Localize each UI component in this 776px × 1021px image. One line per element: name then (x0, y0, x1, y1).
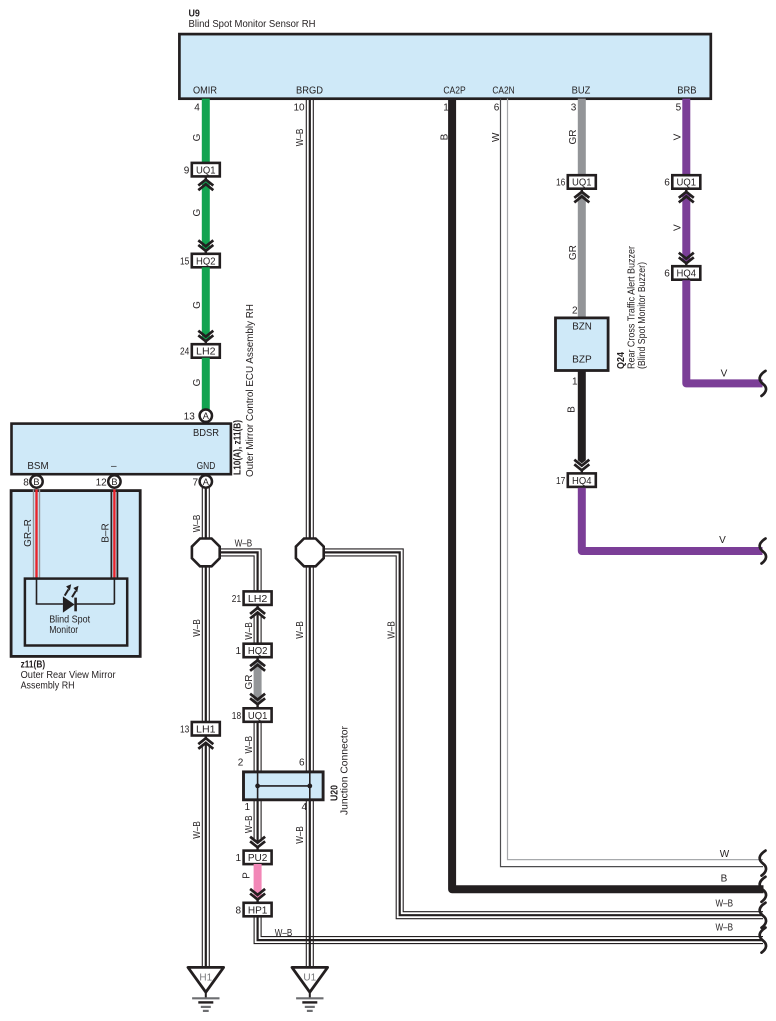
svg-text:24: 24 (180, 347, 190, 358)
svg-text:W–B: W–B (295, 621, 306, 639)
wire continuation squiggle W (760, 851, 766, 876)
pin 13 (A) of ECU (184, 410, 212, 423)
svg-text:6: 6 (494, 103, 500, 114)
svg-text:2: 2 (238, 758, 244, 769)
svg-text:B: B (721, 873, 728, 884)
label z11(B) (21, 660, 45, 671)
node junction on GND wire (192, 539, 220, 567)
wire G segment UQ1 to HQ2 (202, 181, 210, 252)
LED diode (Blind Spot Monitor indicator) (63, 596, 76, 612)
label W-B (716, 923, 734, 934)
node junction on BRGD wire (296, 539, 324, 567)
pin 1 (CA2P) (443, 103, 449, 114)
svg-text:G: G (192, 133, 203, 141)
wire GR HQ2 to UQ1 (254, 661, 262, 705)
pin 5 (BRB) (676, 103, 682, 114)
svg-text:HQ2: HQ2 (248, 646, 268, 657)
svg-text:LH1: LH1 (196, 724, 216, 735)
svg-text:HQ4: HQ4 (572, 476, 592, 487)
svg-text:4: 4 (301, 802, 307, 813)
svg-text:W–B: W–B (244, 736, 255, 754)
pin 6 of U20 (299, 758, 305, 769)
component U20 Junction Connector (244, 772, 324, 800)
label Rear Cross Traffic Alert Buzzer (627, 245, 638, 369)
svg-text:U9: U9 (189, 8, 201, 19)
svg-text:8: 8 (23, 477, 29, 488)
svg-text:BSM: BSM (27, 461, 48, 472)
svg-text:UQ1: UQ1 (248, 711, 268, 722)
svg-text:6: 6 (664, 178, 670, 189)
chevron into PU2 (250, 837, 265, 851)
svg-text:W: W (491, 132, 502, 142)
svg-text:HQ4: HQ4 (677, 269, 697, 280)
component Q24 Rear Cross Traffic Alert Buzzer (556, 318, 609, 371)
svg-text:B: B (111, 477, 117, 487)
svg-text:Blind Spot: Blind Spot (49, 615, 90, 626)
wire B CA2P down and right to edge (452, 99, 763, 890)
chevron into LH2 (198, 331, 213, 345)
chevron into UQ1 (250, 694, 265, 709)
connector 1 PU2 (236, 851, 272, 865)
wire V UQ1 to HQ4 (682, 193, 690, 264)
chevron into HP1 (250, 889, 265, 903)
svg-text:B: B (567, 406, 578, 413)
label G (192, 208, 203, 216)
svg-text:W–B: W–B (295, 826, 306, 844)
label (Blind Spot Monitor Buzzer) (637, 262, 648, 369)
label B-R (101, 523, 112, 542)
label W-B (295, 128, 306, 146)
svg-text:L10(A), z11(B): L10(A), z11(B) (233, 420, 244, 475)
chevron into LH2 (250, 605, 265, 619)
svg-text:15: 15 (180, 256, 190, 267)
label W-B (235, 538, 253, 549)
wire continuation squiggle V (760, 539, 766, 564)
chevron into LH1 (198, 736, 213, 749)
ground H1 (188, 967, 224, 1011)
svg-text:12: 12 (96, 477, 108, 488)
wire P PU2 to HP1 (254, 864, 262, 900)
svg-text:GR–R: GR–R (23, 519, 34, 547)
svg-text:UQ1: UQ1 (677, 178, 697, 189)
svg-text:Outer Rear View Mirror: Outer Rear View Mirror (21, 670, 117, 681)
label W-B (716, 899, 734, 910)
wire continuation squiggle W-B (760, 903, 766, 928)
svg-text:HQ2: HQ2 (196, 256, 216, 267)
svg-text:16: 16 (556, 178, 566, 189)
svg-text:7: 7 (193, 477, 199, 488)
svg-text:W–B: W–B (716, 899, 734, 910)
chevron into HQ4 (679, 253, 694, 267)
svg-text:B–R: B–R (101, 523, 112, 542)
label W-B (244, 815, 255, 833)
svg-text:UQ1: UQ1 (572, 178, 592, 189)
label B (567, 406, 578, 413)
label W-B (386, 621, 397, 639)
wire W-B UQ1 to U20 pin2 (254, 722, 261, 772)
wire W-B junction to LH1 (202, 565, 209, 722)
pin 6 (CA2N) (494, 103, 500, 114)
svg-text:18: 18 (232, 711, 242, 722)
label GR (568, 130, 579, 145)
wire V HQ4 down and right to edge (582, 488, 763, 551)
svg-text:OMIR: OMIR (193, 85, 217, 96)
connector 1 HQ2 (236, 644, 272, 658)
svg-text:V: V (721, 369, 728, 380)
label G (192, 133, 203, 141)
svg-text:LH2: LH2 (196, 347, 216, 358)
svg-text:21: 21 (232, 594, 242, 605)
svg-text:4: 4 (194, 103, 200, 114)
svg-text:9: 9 (184, 165, 190, 176)
label B (721, 873, 728, 884)
svg-text:1: 1 (236, 646, 242, 657)
svg-text:H1: H1 (199, 972, 212, 983)
component Blind Spot Monitor inner box (25, 579, 127, 646)
label W-B (244, 622, 255, 640)
label W (720, 849, 730, 860)
svg-text:P: P (241, 872, 252, 879)
svg-text:Monitor: Monitor (49, 625, 79, 636)
pin 4 (OMIR) (194, 103, 200, 114)
svg-text:W–B: W–B (386, 621, 397, 639)
svg-text:W–B: W–B (716, 923, 734, 934)
svg-text:CA2N: CA2N (492, 85, 514, 96)
connector 8 HP1 (236, 903, 272, 917)
wire continuation squiggle B (760, 877, 766, 902)
svg-text:G: G (192, 208, 203, 216)
wire W-B junction branch right and down to edge (323, 549, 763, 919)
connector 9 UQ1 (184, 163, 220, 177)
connector 24 LH2 (180, 344, 220, 358)
svg-text:BUZ: BUZ (572, 85, 591, 96)
svg-text:V: V (673, 224, 684, 231)
pin 7 (A) of ECU GND (193, 475, 212, 488)
pin 12 (B) of ECU - (96, 475, 121, 488)
wire V U9 pin5 to UQ1 (682, 99, 690, 177)
label U20 (330, 785, 341, 801)
chevron into UQ1 (198, 176, 213, 190)
svg-text:5: 5 (676, 103, 682, 114)
label W-B (192, 619, 203, 637)
label V (673, 133, 684, 140)
wire B Q24 BZP to HQ4 (578, 371, 586, 464)
svg-text:W–B: W–B (295, 128, 306, 146)
wire GR-R (34, 490, 40, 579)
connector 15 HQ2 (180, 254, 220, 267)
LED arrows (65, 584, 79, 597)
svg-text:W–B: W–B (192, 821, 203, 839)
wire W-B ECU pin7 to junction (202, 488, 209, 540)
label GR-R (23, 519, 34, 547)
svg-text:GR: GR (244, 675, 255, 690)
svg-text:UQ1: UQ1 (196, 165, 216, 176)
wire G segment LH2 to ECU pin 13 (202, 358, 210, 410)
wire GR UQ1 to Q24 BZN (578, 193, 586, 319)
svg-text:CA2P: CA2P (443, 85, 466, 96)
label B (439, 133, 450, 140)
label GR (244, 675, 255, 690)
svg-text:BRB: BRB (677, 85, 697, 96)
wire W-B U20 pin4 to ground U1 (306, 800, 313, 967)
svg-text:1: 1 (245, 802, 251, 813)
svg-text:W–B: W–B (275, 928, 293, 939)
svg-text:W–B: W–B (192, 619, 203, 637)
ground U1 (292, 967, 328, 1011)
wire G segment HQ2 to LH2 (202, 267, 210, 342)
svg-text:B: B (439, 133, 450, 140)
svg-text:BRGD: BRGD (296, 85, 323, 96)
svg-text:10: 10 (293, 103, 305, 114)
wire G segment U9 pin4 to UQ1 (202, 99, 210, 165)
connector 6 HQ4 (664, 266, 700, 280)
svg-text:PU2: PU2 (248, 853, 268, 864)
wire W-B U20 pin1 to PU2 (254, 800, 261, 842)
svg-text:3: 3 (571, 103, 577, 114)
svg-text:13: 13 (184, 411, 196, 422)
label W-B (192, 821, 203, 839)
wire continuation squiggle W-B lower (760, 928, 766, 953)
svg-text:BZP: BZP (572, 355, 592, 366)
wire W-B junction branch to LH2 (219, 549, 261, 592)
svg-text:HP1: HP1 (248, 905, 268, 916)
svg-text:8: 8 (236, 905, 242, 916)
wire W-B LH1 to ground H1 (202, 744, 209, 967)
connector 6 UQ1 (664, 175, 700, 189)
svg-text:2: 2 (572, 306, 578, 317)
label W-B (295, 826, 306, 844)
svg-text:GR: GR (568, 245, 579, 260)
svg-text:BZN: BZN (572, 322, 592, 333)
connector 17 HQ4 (556, 473, 596, 487)
label Assembly RH (21, 681, 75, 692)
svg-text:13: 13 (180, 724, 190, 735)
label Outer Mirror Control ECU Assembly RH (245, 304, 256, 477)
label V (719, 535, 726, 546)
label Junction Connector (340, 725, 351, 815)
svg-text:W: W (720, 849, 730, 860)
pin 4 of U20 (301, 802, 307, 813)
svg-text:W–B: W–B (192, 514, 203, 532)
label L10(A), z11(B) (233, 420, 244, 475)
svg-text:A: A (203, 411, 210, 421)
connector 16 UQ1 (556, 175, 596, 189)
svg-text:A: A (203, 477, 210, 487)
svg-text:G: G (192, 301, 203, 309)
label P (241, 872, 252, 879)
wire V HQ4 down and right to edge (686, 280, 762, 383)
svg-text:B: B (33, 477, 39, 487)
svg-text:(Blind Spot Monitor Buzzer): (Blind Spot Monitor Buzzer) (637, 262, 648, 369)
svg-text:W–B: W–B (244, 622, 255, 640)
label W-B (244, 736, 255, 754)
wire B-R (111, 490, 117, 579)
svg-text:Assembly RH: Assembly RH (21, 681, 75, 692)
label W-B (275, 928, 293, 939)
chevron into HQ4 (574, 460, 589, 474)
component U9 Blind Spot Monitor Sensor RH (179, 8, 710, 98)
svg-text:LH2: LH2 (248, 594, 268, 605)
label G (192, 301, 203, 309)
svg-text:Junction Connector: Junction Connector (340, 725, 351, 815)
label G (192, 378, 203, 386)
svg-text:Q24: Q24 (616, 352, 627, 369)
pin 10 (BRGD) (293, 103, 305, 114)
label V (721, 369, 728, 380)
wire GR U9 pin3 to UQ1 (578, 99, 586, 177)
svg-text:G: G (192, 378, 203, 386)
svg-text:GND: GND (197, 461, 216, 472)
wire LED cathode lead (75, 578, 115, 605)
svg-text:BDSR: BDSR (193, 428, 219, 439)
wire W-B HP1 to right edge (254, 916, 763, 943)
chevron into HQ2 (250, 657, 265, 671)
component z11(B) Outer Rear View Mirror Assembly RH box (11, 491, 140, 657)
pin 1 of U20 (245, 802, 251, 813)
svg-text:6: 6 (299, 758, 305, 769)
svg-text:U1: U1 (303, 972, 316, 983)
label W-B (295, 621, 306, 639)
wire W-B U9 pin10 to U20 pin6 (306, 99, 313, 772)
svg-text:6: 6 (664, 269, 670, 280)
label V (673, 224, 684, 231)
chevron into HQ2 (198, 240, 213, 254)
wire W-B LH2 to HQ2 (254, 614, 261, 644)
svg-text:V: V (719, 535, 726, 546)
wire LED anode lead (36, 578, 63, 605)
pin 2 of U20 (238, 758, 244, 769)
svg-text:GR: GR (568, 130, 579, 145)
label W-B (192, 514, 203, 532)
label GR (568, 245, 579, 260)
svg-text:Outer Mirror Control ECU Assem: Outer Mirror Control ECU Assembly RH (245, 304, 256, 477)
connector 21 LH2 (232, 591, 272, 605)
svg-text:z11(B): z11(B) (21, 660, 45, 671)
svg-text:–: – (111, 461, 117, 472)
svg-text:17: 17 (556, 476, 566, 487)
connector 13 LH1 (180, 722, 220, 736)
connector 18 UQ1 (232, 708, 272, 722)
wire W CA2N down and right to edge (501, 99, 764, 867)
svg-text:Blind Spot Monitor Sensor RH: Blind Spot Monitor Sensor RH (189, 19, 316, 30)
svg-text:W–B: W–B (244, 815, 255, 833)
component L10(A)/z11(B) Outer Mirror Control ECU Assembly RH (12, 424, 231, 475)
svg-text:V: V (673, 133, 684, 140)
wire continuation squiggle V (760, 371, 766, 396)
svg-text:1: 1 (572, 376, 578, 387)
pin 2 of Q24 (572, 306, 578, 317)
pin 3 (BUZ) (571, 103, 577, 114)
svg-text:W–B: W–B (235, 538, 253, 549)
label W (491, 132, 502, 142)
label Q24 (616, 352, 627, 369)
label Outer Rear View Mirror (21, 670, 117, 681)
pin 8 (B) of ECU BSM (23, 475, 42, 488)
chevron into UQ1 (679, 189, 694, 203)
svg-text:1: 1 (236, 853, 242, 864)
chevron into UQ1 (574, 189, 589, 203)
pin 1 of Q24 (572, 376, 578, 387)
